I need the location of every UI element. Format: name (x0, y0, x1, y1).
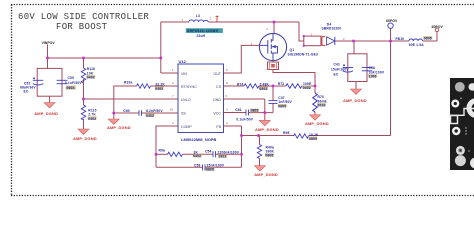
svg-text:0402: 0402 (87, 76, 95, 80)
svg-text:VINPOV: VINPOV (42, 41, 56, 45)
svg-text:LM5022MM_NOPB: LM5022MM_NOPB (181, 137, 217, 142)
svg-text:0402: 0402 (303, 86, 311, 90)
svg-text:0603: 0603 (67, 86, 75, 90)
svg-text:FOR BOOST: FOR BOOST (56, 22, 108, 32)
svg-text:C60: C60 (123, 109, 130, 113)
svg-text:COMP: COMP (181, 125, 192, 129)
svg-text:0.1uF/50V: 0.1uF/50V (236, 117, 253, 121)
svg-text:0805: 0805 (278, 104, 286, 108)
svg-text:L3: L3 (196, 14, 200, 18)
svg-text:SBRD10200: SBRD10200 (322, 27, 342, 31)
svg-text:15uF/100V: 15uF/100V (331, 68, 349, 72)
svg-text:CS: CS (216, 85, 222, 89)
svg-text:AMP_DGND: AMP_DGND (73, 136, 97, 141)
svg-text:R98: R98 (283, 131, 290, 135)
svg-text:8.2nF/50V: 8.2nF/50V (146, 109, 163, 113)
svg-text:3.48K: 3.48K (260, 82, 270, 86)
svg-text:0805: 0805 (424, 37, 432, 41)
svg-text:R10a: R10a (124, 80, 132, 84)
svg-text:AMP_DGND: AMP_DGND (34, 111, 58, 116)
svg-text:AMP_DGND: AMP_DGND (255, 127, 279, 132)
svg-text:C58: C58 (194, 164, 201, 168)
svg-text:FB10: FB10 (396, 37, 405, 41)
svg-text:C36: C36 (369, 66, 376, 70)
svg-text:FB: FB (216, 125, 221, 129)
svg-text:C59: C59 (68, 76, 75, 80)
svg-text:0402: 0402 (146, 114, 154, 118)
svg-text:22uH: 22uH (197, 34, 206, 38)
svg-text:EC: EC (334, 73, 339, 77)
svg-text:C61: C61 (235, 108, 242, 112)
svg-text:U12: U12 (179, 59, 187, 64)
svg-text:VCC: VCC (213, 111, 221, 115)
svg-text:UVLO: UVLO (181, 98, 191, 102)
svg-text:0805: 0805 (251, 109, 259, 113)
svg-text:OUT: OUT (213, 72, 221, 76)
svg-text:R74: R74 (237, 82, 244, 86)
svg-text:0402: 0402 (155, 87, 163, 91)
svg-text:10: 10 (170, 108, 174, 112)
svg-text:SRP6540-220MG: SRP6540-220MG (187, 29, 219, 33)
svg-text:AMP_DGND: AMP_DGND (254, 172, 278, 177)
svg-text:60POV: 60POV (386, 19, 398, 23)
svg-text:0805: 0805 (206, 168, 214, 172)
svg-text:0.1uF/50V: 0.1uF/50V (65, 81, 82, 85)
svg-text:0402: 0402 (193, 154, 201, 158)
svg-text:SS: SS (181, 111, 186, 115)
svg-text:EC: EC (24, 89, 29, 93)
svg-text:RT/SYNC: RT/SYNC (181, 85, 197, 89)
svg-text:0402: 0402 (88, 117, 96, 121)
svg-text:GND: GND (213, 98, 221, 102)
svg-text:60E 1.5A: 60E 1.5A (409, 43, 424, 47)
svg-text:C54: C54 (205, 150, 212, 154)
svg-text:60V LOW SIDE CONTROLLER: 60V LOW SIDE CONTROLLER (18, 12, 149, 22)
svg-text:AMP_DGND: AMP_DGND (305, 121, 329, 126)
svg-text:SiS196DN-T1-GE3: SiS196DN-T1-GE3 (288, 52, 318, 56)
svg-text:0805: 0805 (266, 153, 274, 157)
svg-text:R9a: R9a (159, 149, 166, 153)
svg-text:0402: 0402 (260, 87, 268, 91)
svg-text:AMP_DGND: AMP_DGND (343, 98, 367, 103)
svg-text:1206: 1206 (369, 74, 377, 78)
svg-text:VIN: VIN (181, 72, 187, 76)
svg-text:R73: R73 (278, 82, 285, 86)
svg-text:AMP_DGND: AMP_DGND (107, 125, 131, 130)
svg-text:2010: 2010 (318, 104, 326, 108)
svg-text:60POV: 60POV (432, 25, 444, 29)
svg-text:0805: 0805 (309, 137, 317, 141)
svg-text:C41: C41 (334, 63, 341, 67)
svg-text:1812: 1812 (219, 154, 227, 158)
